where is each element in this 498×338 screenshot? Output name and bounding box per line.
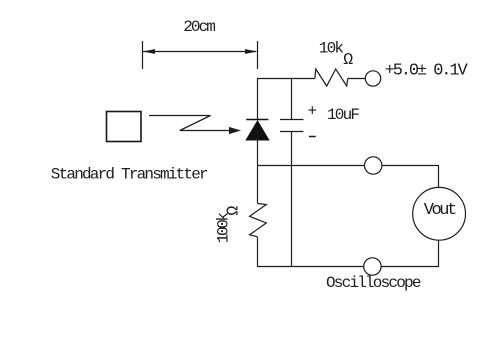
bottom wire: left segment <box>257 266 364 268</box>
resistor R1 zigzag <box>315 69 348 86</box>
wire: R1 to terminal T1 <box>348 78 365 80</box>
resistor R2 zigzag vertical <box>250 204 267 237</box>
dimension arrow line 20cm <box>143 49 258 54</box>
dimension extension line left <box>142 41 144 69</box>
svg-text:20cm: 20cm <box>183 18 215 36</box>
svg-text:+5.0± 0.1V: +5.0± 0.1V <box>385 62 469 81</box>
svg-text:Oscilloscope: Oscilloscope <box>326 274 421 292</box>
transmitter box <box>107 112 142 142</box>
svg-text:10k: 10k <box>319 40 344 58</box>
svg-text:100k: 100k <box>215 213 233 244</box>
label minus for capacitor <box>309 136 316 138</box>
middle wire: junction to terminal T2 <box>257 165 365 167</box>
wire: Vout meter bottom to bottom wire <box>438 240 440 267</box>
oscilloscope meter Vout circle <box>413 187 466 240</box>
svg-text:Vout: Vout <box>424 201 456 220</box>
bottom wire: right segment <box>381 266 439 268</box>
svg-text:Ω: Ω <box>343 50 353 69</box>
terminal T3 <box>364 258 381 275</box>
wire: top horizontal from corner to resistor R1 <box>257 78 315 80</box>
terminal T2 <box>365 157 382 174</box>
wire: capacitor branch bottom <box>291 132 293 267</box>
wire: right vertical down to Vout meter <box>438 166 440 188</box>
svg-text:10uF: 10uF <box>327 106 359 124</box>
terminal T1 <box>365 71 380 86</box>
light beam zigzag arrow <box>149 116 241 135</box>
photodiode D1 <box>245 120 269 141</box>
svg-text:Standard Transmitter: Standard Transmitter <box>51 166 208 184</box>
svg-text:+: + <box>308 103 318 121</box>
capacitor C1 plates <box>280 120 304 132</box>
wire: photodiode bottom to middle junction and on to resistor R2 <box>257 140 259 204</box>
wire: capacitor branch top <box>291 78 293 120</box>
dimension extension line right <box>257 41 259 69</box>
wire: top-left corner to photodiode top <box>257 78 259 120</box>
middle wire: terminal T2 to right corner <box>382 165 439 167</box>
wire: R2 bottom to bottom wire <box>257 237 259 267</box>
svg-text:Ω: Ω <box>224 206 243 216</box>
